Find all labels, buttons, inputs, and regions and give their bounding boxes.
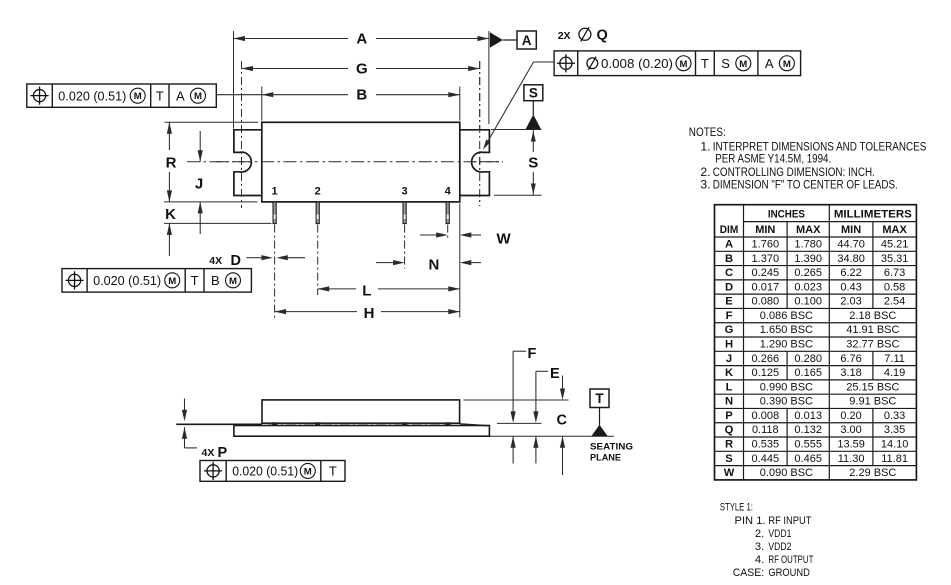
svg-text:STYLE 1:: STYLE 1:: [720, 502, 753, 514]
svg-text:6.22: 6.22: [840, 267, 861, 279]
svg-text:1.: 1.: [700, 139, 710, 153]
svg-text:0.245: 0.245: [752, 267, 780, 279]
svg-text:A: A: [725, 238, 733, 250]
svg-text:G: G: [725, 324, 734, 336]
svg-text:3.35: 3.35: [884, 424, 905, 436]
svg-text:SEATING: SEATING: [590, 442, 633, 453]
svg-text:GROUND: GROUND: [768, 567, 810, 579]
svg-text:2.18 BSC: 2.18 BSC: [849, 310, 896, 322]
svg-text:S: S: [528, 154, 538, 171]
svg-text:0.100: 0.100: [794, 296, 822, 308]
svg-text:2.03: 2.03: [840, 296, 861, 308]
svg-text:C: C: [557, 412, 568, 428]
svg-text:S: S: [725, 453, 733, 465]
svg-text:25.15 BSC: 25.15 BSC: [846, 381, 899, 393]
svg-text:B: B: [725, 253, 733, 265]
svg-text:0.165: 0.165: [794, 367, 822, 379]
svg-text:T: T: [191, 273, 199, 288]
svg-text:6.73: 6.73: [884, 267, 905, 279]
svg-text:41.91 BSC: 41.91 BSC: [846, 324, 899, 336]
svg-text:R: R: [725, 439, 733, 451]
svg-text:3: 3: [402, 186, 408, 198]
svg-text:L: L: [726, 381, 733, 393]
svg-text:0.33: 0.33: [884, 410, 905, 422]
svg-text:T: T: [701, 56, 709, 71]
svg-text:1.650 BSC: 1.650 BSC: [760, 324, 813, 336]
svg-text:T: T: [156, 88, 164, 103]
svg-text:H: H: [364, 305, 375, 322]
svg-text:MAX: MAX: [882, 224, 907, 236]
svg-text:E: E: [550, 366, 560, 382]
svg-text:DIM: DIM: [720, 224, 739, 236]
svg-text:2.54: 2.54: [884, 296, 905, 308]
svg-text:PIN 1.: PIN 1.: [735, 515, 766, 527]
svg-text:0.465: 0.465: [794, 453, 822, 465]
svg-text:C: C: [725, 267, 733, 279]
svg-text:0.023: 0.023: [794, 281, 822, 293]
svg-text:P: P: [725, 410, 733, 422]
svg-text:W: W: [724, 467, 735, 479]
svg-text:0.280: 0.280: [794, 353, 822, 365]
svg-text:CASE:: CASE:: [733, 567, 765, 579]
svg-text:F: F: [528, 346, 537, 362]
svg-text:0.017: 0.017: [752, 281, 780, 293]
svg-text:DIMENSION "F" TO CENTER OF LEA: DIMENSION "F" TO CENTER OF LEADS.: [713, 178, 898, 192]
svg-text:0.125: 0.125: [752, 367, 780, 379]
svg-text:1.370: 1.370: [752, 253, 780, 265]
svg-text:0.390 BSC: 0.390 BSC: [760, 396, 813, 408]
svg-text:D: D: [231, 253, 241, 269]
svg-text:11.30: 11.30: [838, 453, 865, 465]
svg-text:Q: Q: [597, 28, 608, 44]
svg-text:M: M: [194, 91, 202, 102]
svg-text:S: S: [721, 56, 730, 71]
svg-text:0.013: 0.013: [794, 410, 822, 422]
svg-text:0.20: 0.20: [840, 410, 861, 422]
svg-text:W: W: [497, 231, 512, 248]
svg-text:4.: 4.: [755, 554, 764, 566]
svg-text:0.990 BSC: 0.990 BSC: [760, 381, 813, 393]
svg-text:1.290 BSC: 1.290 BSC: [760, 339, 813, 351]
svg-text:M: M: [304, 466, 312, 477]
svg-text:M: M: [168, 276, 176, 287]
svg-text:4X: 4X: [202, 447, 215, 459]
svg-text:K: K: [725, 367, 733, 379]
svg-text:A: A: [356, 30, 367, 47]
svg-text:D: D: [725, 281, 733, 293]
svg-text:0.020 (0.51): 0.020 (0.51): [232, 464, 298, 479]
svg-text:2.: 2.: [755, 528, 764, 540]
svg-text:11.81: 11.81: [881, 453, 908, 465]
svg-text:RF OUTPUT: RF OUTPUT: [768, 554, 813, 566]
svg-text:R: R: [166, 154, 177, 171]
svg-text:G: G: [356, 60, 368, 77]
svg-text:M: M: [680, 59, 688, 70]
svg-text:PER ASME Y14.5M, 1994.: PER ASME Y14.5M, 1994.: [715, 152, 831, 166]
svg-text:0.58: 0.58: [884, 281, 905, 293]
svg-text:P: P: [218, 445, 228, 461]
svg-text:E: E: [725, 296, 733, 308]
svg-text:0.265: 0.265: [794, 267, 822, 279]
svg-text:0.008: 0.008: [752, 410, 780, 422]
svg-text:0.086 BSC: 0.086 BSC: [760, 310, 813, 322]
svg-text:B: B: [211, 273, 220, 288]
svg-text:1.780: 1.780: [794, 238, 822, 250]
svg-text:H: H: [725, 339, 733, 351]
svg-text:MIN: MIN: [755, 224, 775, 236]
svg-text:A: A: [522, 33, 532, 48]
svg-text:0.132: 0.132: [794, 424, 822, 436]
svg-text:3.: 3.: [700, 178, 710, 192]
svg-text:3.18: 3.18: [840, 367, 861, 379]
svg-text:45.21: 45.21: [881, 238, 909, 250]
svg-text:1.390: 1.390: [794, 253, 822, 265]
svg-text:32.77 BSC: 32.77 BSC: [846, 339, 899, 351]
svg-text:2.29 BSC: 2.29 BSC: [849, 467, 896, 479]
svg-text:4X: 4X: [209, 255, 222, 267]
svg-text:RF INPUT: RF INPUT: [768, 515, 811, 527]
svg-text:13.59: 13.59: [837, 439, 865, 451]
svg-text:L: L: [362, 282, 371, 299]
svg-text:B: B: [356, 87, 367, 104]
svg-text:M: M: [229, 276, 237, 287]
svg-text:INCHES: INCHES: [768, 208, 805, 220]
svg-text:J: J: [195, 175, 203, 192]
svg-text:0.080: 0.080: [752, 296, 780, 308]
svg-text:A: A: [765, 56, 774, 71]
svg-text:T: T: [329, 464, 337, 479]
svg-text:MIN: MIN: [841, 224, 861, 236]
svg-text:0.020 (0.51): 0.020 (0.51): [58, 88, 126, 103]
svg-text:J: J: [726, 353, 732, 365]
svg-text:Q: Q: [725, 424, 734, 436]
svg-text:7.11: 7.11: [884, 353, 905, 365]
svg-text:F: F: [726, 310, 733, 322]
svg-text:2X: 2X: [558, 30, 571, 42]
svg-text:0.555: 0.555: [794, 439, 822, 451]
svg-text:A: A: [176, 88, 185, 103]
svg-text:VDD1: VDD1: [768, 528, 791, 540]
svg-text:0.020 (0.51): 0.020 (0.51): [93, 273, 161, 288]
svg-text:0.090 BSC: 0.090 BSC: [760, 467, 813, 479]
svg-text:35.31: 35.31: [881, 253, 909, 265]
svg-text:M: M: [739, 59, 747, 70]
svg-text:VDD2: VDD2: [768, 541, 791, 553]
svg-text:1: 1: [272, 186, 278, 198]
svg-text:0.445: 0.445: [752, 453, 780, 465]
svg-text:3.00: 3.00: [840, 424, 861, 436]
svg-text:3.: 3.: [755, 541, 764, 553]
svg-text:M: M: [783, 59, 791, 70]
svg-text:0.43: 0.43: [840, 281, 861, 293]
svg-text:MILLIMETERS: MILLIMETERS: [834, 208, 912, 220]
svg-text:K: K: [165, 206, 176, 223]
svg-text:34.80: 34.80: [837, 253, 865, 265]
svg-text:N: N: [429, 256, 440, 273]
svg-text:MAX: MAX: [796, 224, 821, 236]
svg-text:NOTES:: NOTES:: [689, 125, 726, 139]
svg-text:N: N: [725, 396, 733, 408]
svg-text:6.76: 6.76: [840, 353, 861, 365]
svg-text:1.760: 1.760: [752, 238, 780, 250]
svg-text:9.91 BSC: 9.91 BSC: [849, 396, 896, 408]
svg-text:44.70: 44.70: [837, 238, 865, 250]
svg-text:0.008 (0.20): 0.008 (0.20): [601, 56, 673, 71]
svg-text:0.535: 0.535: [752, 439, 780, 451]
svg-text:T: T: [595, 391, 604, 406]
svg-text:M: M: [134, 91, 142, 102]
svg-text:0.266: 0.266: [752, 353, 780, 365]
svg-text:PLANE: PLANE: [590, 453, 622, 464]
svg-text:4.19: 4.19: [884, 367, 905, 379]
svg-text:4: 4: [445, 186, 452, 198]
svg-text:14.10: 14.10: [881, 439, 909, 451]
svg-text:2: 2: [315, 186, 321, 198]
svg-text:0.118: 0.118: [752, 424, 779, 436]
svg-text:S: S: [529, 86, 538, 101]
